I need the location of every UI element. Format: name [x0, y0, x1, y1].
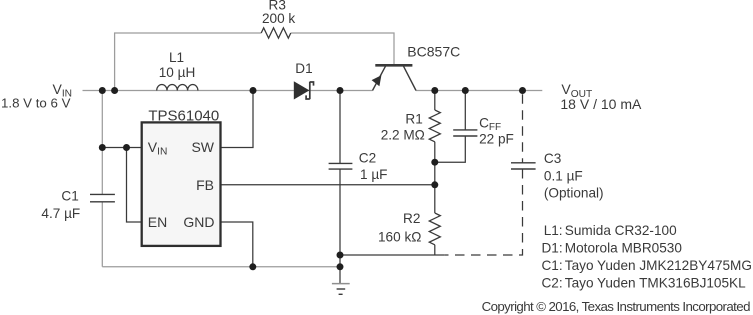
svg-text:SW: SW [191, 139, 214, 155]
svg-text:(Optional): (Optional) [544, 186, 604, 201]
svg-text:D1:: D1: [541, 241, 562, 256]
svg-text:Sumida CR32-100: Sumida CR32-100 [565, 223, 677, 238]
svg-text:TPS61040: TPS61040 [148, 107, 219, 124]
svg-text:200 k: 200 k [262, 11, 295, 26]
svg-text:1 µF: 1 µF [360, 167, 387, 182]
svg-text:BC857C: BC857C [407, 44, 460, 60]
svg-text:0.1 µF: 0.1 µF [544, 168, 583, 183]
svg-text:FB: FB [196, 177, 214, 193]
svg-text:C1: C1 [61, 189, 78, 204]
svg-text:C1:: C1: [541, 258, 562, 273]
svg-text:160 kΩ: 160 kΩ [378, 230, 421, 245]
svg-text:C2:: C2: [541, 275, 562, 290]
svg-text:CFF: CFF [479, 115, 501, 133]
svg-text:Tayo Yuden TMK316BJ105KL: Tayo Yuden TMK316BJ105KL [565, 275, 746, 290]
svg-text:D1: D1 [295, 61, 312, 76]
svg-text:C3: C3 [544, 151, 561, 166]
svg-text:2.2 MΩ: 2.2 MΩ [381, 127, 425, 142]
svg-text:L1:: L1: [544, 223, 563, 238]
svg-text:R1: R1 [405, 111, 422, 126]
svg-text:C2: C2 [359, 151, 376, 166]
svg-text:22 pF: 22 pF [479, 132, 514, 147]
svg-text:GND: GND [183, 214, 214, 230]
svg-text:Motorola MBR0530: Motorola MBR0530 [565, 241, 683, 256]
svg-text:1.8 V to 6 V: 1.8 V to 6 V [1, 96, 71, 111]
svg-text:18 V / 10 mA: 18 V / 10 mA [560, 96, 642, 112]
svg-text:R2: R2 [403, 211, 420, 226]
svg-text:Copyright © 2016, Texas Instru: Copyright © 2016, Texas Instruments Inco… [482, 299, 750, 314]
svg-text:EN: EN [148, 214, 167, 230]
svg-text:10 µH: 10 µH [159, 65, 196, 80]
svg-text:4.7 µF: 4.7 µF [41, 206, 80, 221]
svg-text:Tayo Yuden JMK212BY475MG: Tayo Yuden JMK212BY475MG [565, 258, 752, 273]
svg-text:L1: L1 [169, 50, 184, 65]
